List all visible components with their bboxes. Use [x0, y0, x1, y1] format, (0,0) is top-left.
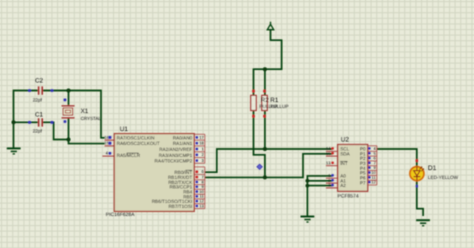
resistor R1	[262, 90, 267, 118]
pin 2 number	[196, 154, 198, 156]
svg-text:RA2/AN2/VREF: RA2/AN2/VREF	[159, 147, 192, 152]
wire LED cathode to ground	[417, 181, 423, 216]
svg-text:LED-YELLOW: LED-YELLOW	[428, 175, 459, 180]
resistor R2	[251, 90, 256, 118]
pin 8 number	[196, 181, 198, 183]
LED D1 body	[410, 167, 424, 181]
svg-text:RA5/MCLR: RA5/MCLR	[117, 153, 141, 158]
U2 pin names	[340, 147, 366, 189]
LED D1 bottom pin marker	[416, 185, 418, 187]
pin 11 number	[368, 176, 370, 178]
svg-text:INT: INT	[340, 161, 348, 166]
U1 right pin number ladder (RA block)	[194, 134, 205, 163]
wire crystal top stub	[68, 91, 70, 106]
node A1 tap	[306, 179, 310, 183]
pin 9 number	[368, 166, 370, 168]
svg-text:A2: A2	[340, 183, 346, 188]
ground (right, under LED)	[416, 220, 430, 226]
pin 6 number	[368, 157, 370, 159]
power terminal (VCC arrow)	[267, 22, 273, 30]
wire C2 right to crystal top to U1 pin16 (OSC1)	[43, 91, 105, 138]
svg-text:RA4/T0CKI/CMP2: RA4/T0CKI/CMP2	[155, 159, 193, 164]
svg-text:12: 12	[371, 180, 376, 185]
U2 left pin number ladder	[326, 151, 338, 188]
wire R2 bottom jog to SDA line	[254, 111, 265, 178]
svg-text:RA7/OSC1/CLKIN: RA7/OSC1/CLKIN	[117, 135, 155, 140]
LED D1 top pin marker	[416, 159, 419, 162]
wire crystal bottom / C1 right to U1 pin15 (OSC2)	[43, 119, 105, 144]
svg-text:PCF8574: PCF8574	[338, 193, 359, 199]
svg-text:15: 15	[326, 151, 331, 156]
svg-text:RB7/T1OSI: RB7/T1OSI	[168, 204, 192, 209]
pin 3 number	[196, 159, 198, 161]
svg-text:17: 17	[199, 135, 204, 140]
node A2 tap	[306, 184, 310, 188]
svg-text:R1: R1	[270, 97, 279, 104]
IC U2 PCF8574 body	[338, 145, 368, 192]
svg-text:X1: X1	[81, 108, 89, 115]
pin 10 number	[196, 190, 198, 192]
pin 12 number	[368, 181, 370, 183]
svg-text:U2: U2	[341, 136, 350, 143]
pin 12 number	[196, 200, 198, 202]
pin 5 number	[368, 152, 370, 154]
crystal X1	[62, 99, 102, 123]
svg-text:R2: R2	[261, 97, 270, 104]
svg-text:22pf: 22pf	[33, 129, 43, 134]
wire U2 P0 pin4 to LED anode	[377, 149, 417, 167]
capacitor C2	[28, 78, 53, 103]
U1 left pin number ladder	[102, 140, 114, 156]
svg-text:RA0/AN0: RA0/AN0	[173, 135, 193, 140]
svg-text:RA3/AN3/CMP1: RA3/AN3/CMP1	[159, 153, 193, 158]
origin marker (blue diamond)	[257, 164, 263, 169]
node power to R1	[263, 67, 267, 71]
svg-text:C1: C1	[35, 111, 44, 118]
pin 17 number	[196, 136, 198, 138]
node R1 to SCL	[263, 147, 267, 151]
pin 11 number	[196, 195, 198, 197]
svg-text:U1: U1	[120, 126, 129, 133]
wire left net: C2 left, vertical rail to ground, C1 left	[14, 91, 38, 148]
U2 right pin number ladder	[368, 146, 377, 185]
wire SCL line: U1 RB0 pin6 to U2 SCL pin14	[205, 149, 333, 172]
pin 4 number	[368, 147, 370, 149]
wire U2 address pins A0 A1 A2 to ground rail	[307, 176, 332, 216]
wire SDA line: U1 RB1 pin7 to U2 SDA pin15	[205, 154, 333, 178]
node R2 to SDA	[263, 175, 267, 179]
pin 7 number	[196, 176, 199, 179]
ground (middle, under U2 address pins)	[301, 217, 315, 223]
svg-text:18: 18	[199, 141, 204, 146]
node crystal bottom / C1	[67, 138, 71, 142]
pin 10 number	[368, 171, 370, 173]
pin 1 number	[196, 148, 198, 150]
ground (left, under C1/C2 rail)	[7, 148, 21, 154]
IC U1 PIC16F628A body	[114, 134, 194, 212]
wire power rail to resistors	[254, 30, 282, 96]
capacitor C1	[28, 111, 53, 133]
pin 18 number	[196, 142, 198, 144]
svg-text:RA1/AN1: RA1/AN1	[173, 141, 193, 146]
svg-text:D1: D1	[428, 165, 437, 172]
pin 13 number	[196, 205, 198, 207]
resistor labels R2 R1 PULLUP PULLUP	[259, 97, 288, 109]
svg-text:22pf: 22pf	[33, 97, 43, 102]
LED emission arrows	[419, 167, 423, 172]
svg-text:PULLUP: PULLUP	[270, 104, 288, 109]
U1 pin names	[117, 135, 194, 209]
node C1 tap on left rail	[12, 120, 16, 124]
node crystal top / C2	[67, 89, 71, 93]
svg-text:C2: C2	[35, 78, 44, 85]
pin 9 number	[196, 186, 198, 188]
pin 7 number	[368, 162, 370, 164]
wire R1 bottom to SCL line	[264, 111, 266, 150]
svg-text:PIC16F628A: PIC16F628A	[106, 212, 135, 218]
svg-text:CRYSTAL: CRYSTAL	[81, 116, 102, 121]
svg-text:13: 13	[326, 160, 331, 165]
svg-text:P7: P7	[360, 180, 366, 185]
U1 right pin number ladder (RB block)	[194, 167, 205, 209]
pin 6 number	[196, 171, 199, 174]
svg-text:13: 13	[199, 203, 204, 208]
svg-text:SDA: SDA	[340, 151, 350, 156]
svg-text:RA6/OSC2/CLKOUT: RA6/OSC2/CLKOUT	[117, 141, 160, 146]
